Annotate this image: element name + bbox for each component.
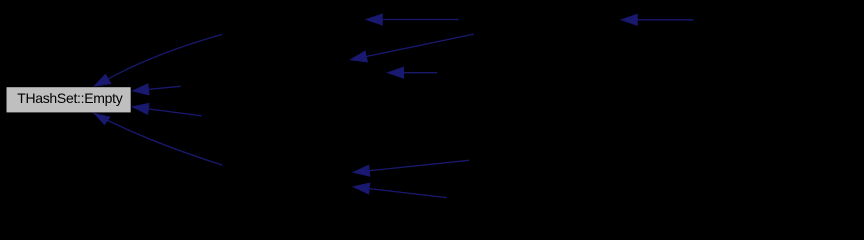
node THashSet::Empty (6, 87, 131, 113)
arrowhead curve bottom (94, 113, 110, 124)
edge curve top caller (100, 34, 222, 83)
edge middle diagonal (366, 34, 474, 56)
edge short lower into node right side (148, 109, 201, 116)
arrowhead bottom upper diagonal (353, 165, 370, 176)
arrowhead curve top (95, 74, 111, 86)
edge middle short horizontal (404, 72, 437, 74)
arrowhead bottom lower diagonal (353, 183, 370, 194)
edge curve bottom caller (100, 117, 222, 166)
arrowhead middle diagonal (351, 51, 368, 62)
edge short upper into node right side (148, 86, 180, 89)
edge top right horizontal (637, 19, 693, 21)
arrowhead top middle horizontal (366, 14, 382, 25)
edge bottom upper diagonal (369, 160, 469, 170)
edge top middle horizontal (382, 19, 459, 21)
arrowhead short lower (133, 103, 150, 114)
svg-text:THashSet::Empty: THashSet::Empty (17, 90, 123, 106)
arrowhead middle short horizontal (388, 67, 404, 78)
arrowhead short upper (133, 84, 150, 95)
arrowhead top right horizontal (621, 14, 637, 25)
edge bottom lower diagonal (369, 189, 447, 198)
